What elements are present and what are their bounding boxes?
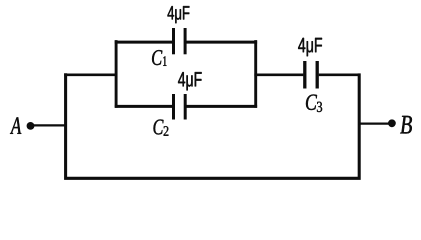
wire: middle right segment left of C3 (254, 73, 303, 76)
wire: A stub (31, 124, 68, 126)
wire: middle left segment (node to parallel box) (64, 73, 117, 76)
label C2 (154, 120, 164, 135)
wire: middle right segment right of C3 (319, 73, 361, 76)
wire: top branch left of C1 (115, 41, 172, 44)
wire: B stub (358, 122, 392, 124)
node A dot (27, 122, 35, 130)
label C3 (306, 95, 317, 111)
wire: outer U (left vertical, bottom wire, right vertical) (66, 73, 360, 178)
wire: parallel box left vertical (115, 40, 118, 108)
wire: parallel box right vertical (254, 40, 257, 108)
node B dot (388, 119, 396, 127)
capacitor C1 plates (172, 28, 175, 54)
label node A (10, 117, 21, 133)
label C1 (152, 50, 162, 65)
wire: bottom branch left of C2 (115, 105, 172, 108)
capacitor C2 plates (172, 94, 175, 120)
wire: bottom branch right of C2 (187, 105, 258, 108)
label node B (400, 116, 412, 134)
capacitor C3 plates (303, 61, 306, 89)
wire: top branch right of C1 (186, 41, 257, 44)
value label 4uF for C2 (178, 72, 202, 90)
value label 4uF for C1 (168, 6, 190, 23)
value label 4uF for C3 (298, 38, 322, 56)
